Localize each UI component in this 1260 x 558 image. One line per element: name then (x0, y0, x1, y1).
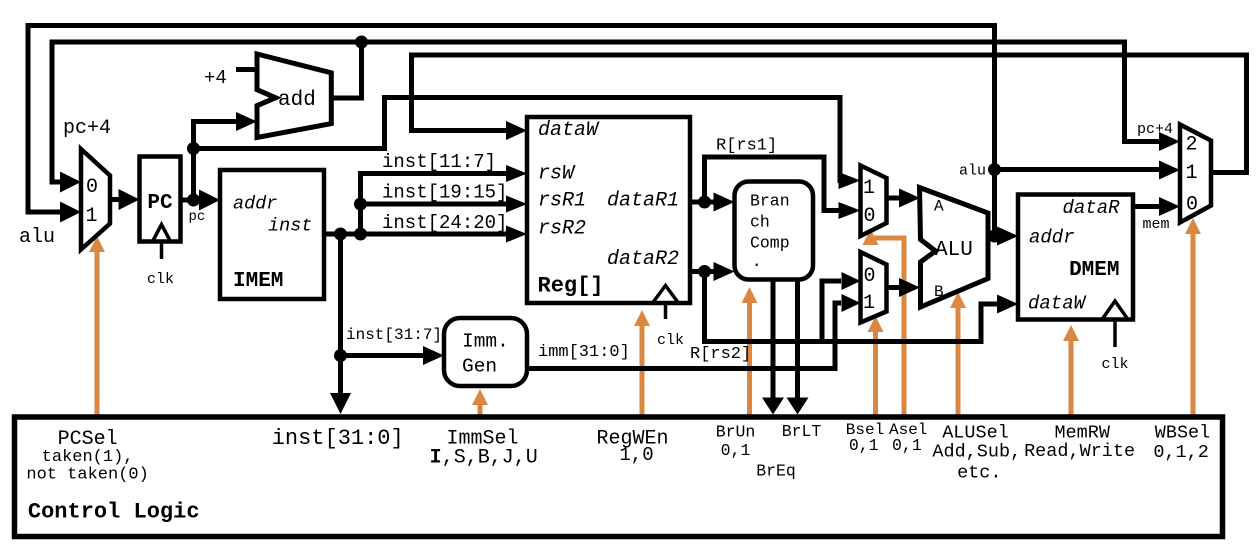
wire alu feedback loop (ALU output to PCSel mux input 1) (28, 26, 995, 237)
arrowhead into A-mux input 1 (839, 172, 861, 189)
wire A-mux output to ALU A (887, 196, 901, 201)
wire BrEq (Branch Comp to Control Logic) (771, 280, 776, 399)
wire inst[24:20] (IMEM inst output to Reg rsR2) (324, 232, 507, 237)
wire PCSel mux output to PC (110, 197, 119, 202)
svg-text:1: 1 (85, 205, 97, 228)
svg-text:0,1: 0,1 (849, 436, 879, 455)
svg-text:B: B (934, 283, 944, 301)
svg-text:alu: alu (19, 226, 55, 249)
WBSel control arrow (orange) (1185, 218, 1201, 419)
arrowhead into PCSel mux input 1 (60, 202, 81, 223)
arrowhead into B-mux input 0 (842, 272, 861, 290)
node pc output junction (187, 194, 200, 207)
mux WBSel (1180, 125, 1211, 223)
arrowhead inst[31:0] into Control Logic (330, 393, 351, 414)
svg-text:Add,Sub,: Add,Sub, (932, 442, 1021, 463)
arrowhead into PC (119, 189, 140, 210)
svg-text:DMEM: DMEM (1069, 259, 1119, 282)
svg-text:IMEM: IMEM (233, 270, 283, 293)
svg-text:ALUSel: ALUSel (942, 423, 1009, 444)
svg-text:Imm.: Imm. (462, 331, 509, 353)
svg-text:add: add (278, 89, 316, 112)
wire R[rs1] to A-mux input 0 (705, 157, 842, 211)
arrowhead BrEq into Control Logic (762, 398, 784, 415)
mux Bsel (861, 252, 887, 323)
RegWEn control arrow (orange) (634, 310, 650, 419)
arrowhead into Reg rsR1 (506, 196, 527, 213)
svg-text:dataW: dataW (1028, 293, 1087, 315)
arrowhead into ALU A input (899, 189, 920, 208)
wire DMEM clk stub (1113, 320, 1117, 348)
svg-text:0,1,2: 0,1,2 (1153, 442, 1209, 463)
wire inst[31:0] down to Control Logic (338, 234, 343, 395)
svg-text:rsR1: rsR1 (538, 190, 586, 213)
svg-text:0,1: 0,1 (892, 436, 922, 455)
svg-text:addr: addr (233, 194, 277, 215)
svg-text:imm[31:0]: imm[31:0] (538, 343, 630, 362)
svg-text:rsR2: rsR2 (538, 218, 586, 241)
arrowhead into Reg dataW (506, 121, 527, 140)
node inst output junction (334, 228, 347, 241)
svg-text:Control Logic: Control Logic (28, 500, 200, 525)
Bsel control arrow (orange) (868, 316, 884, 419)
svg-text:1: 1 (863, 177, 875, 200)
Reg clk triangle (653, 286, 679, 304)
wire inst[31:7] to Imm. Gen (341, 353, 425, 358)
wire inst[19:15] branch to Reg rsR1 (361, 202, 508, 207)
svg-text:clk: clk (147, 271, 174, 288)
wire DMEM dataR to WB mux input 0 (1133, 204, 1160, 209)
mux PCSel (81, 149, 110, 250)
svg-text:0: 0 (863, 205, 875, 228)
arrowhead into Imm. Gen (423, 346, 444, 365)
svg-text:ALU: ALU (935, 239, 973, 262)
svg-text:dataW: dataW (538, 119, 600, 142)
wire PC clk stub (160, 242, 164, 260)
wire pc+4 loop (add output to PCSel mux input 0 and WB mux input 2) (331, 42, 361, 98)
arrowhead into Reg rsW (506, 165, 527, 182)
arrowhead into A-mux input 0 (839, 202, 861, 219)
svg-text:R[rs1]: R[rs1] (716, 137, 777, 156)
svg-text:BrEq: BrEq (756, 462, 796, 481)
svg-text:1: 1 (863, 292, 875, 315)
svg-text:dataR1: dataR1 (607, 190, 679, 213)
svg-text:mem: mem (1143, 216, 1170, 233)
svg-text:dataR2: dataR2 (607, 248, 679, 271)
register file Reg[] (527, 117, 690, 303)
register PC (140, 157, 181, 242)
svg-text:BrLT: BrLT (782, 422, 822, 441)
node dataR1 junction (698, 196, 711, 209)
arrowhead into DMEM dataW (997, 295, 1018, 314)
svg-text:Read,Write: Read,Write (1024, 441, 1135, 462)
svg-text:alu: alu (959, 163, 986, 180)
svg-text:WBSel: WBSel (1155, 423, 1211, 444)
svg-text:dataR: dataR (1062, 197, 1120, 219)
wire dataR1 to Branch Comp (690, 200, 715, 205)
control unit Control Logic box (15, 417, 1223, 537)
wire writeback (WB mux output to Reg dataW) (412, 55, 1247, 173)
svg-text:+4: +4 (204, 67, 227, 89)
node ALU output junction (988, 230, 1001, 243)
svg-text:.: . (752, 252, 762, 271)
ALUSel control arrow (orange) (950, 292, 966, 419)
svg-text:Gen: Gen (462, 356, 497, 378)
arrowhead into Branch Comp lower input (714, 262, 735, 281)
svg-text:2: 2 (1185, 134, 1197, 157)
svg-text:pc+4: pc+4 (63, 117, 111, 140)
wire inst[11:7] riser and branch to Reg rsW (361, 174, 508, 235)
wire pc net (PC output to IMEM addr, +4 adder, A-mux input 1) (181, 198, 201, 203)
node add output junction (355, 36, 368, 49)
arrowhead BrLT into Control Logic (787, 398, 809, 415)
svg-text:Reg[]: Reg[] (538, 274, 604, 299)
arrowhead into PCSel mux input 0 (60, 172, 81, 193)
svg-text:A: A (934, 198, 944, 216)
node dataR2 junction (698, 265, 711, 278)
svg-text:clk: clk (1101, 356, 1128, 373)
svg-text:I,S,B,J,U: I,S,B,J,U (430, 447, 538, 470)
arrowhead into DMEM addr (997, 227, 1018, 246)
svg-text:inst[19:15]: inst[19:15] (382, 182, 507, 204)
arrowhead into WB mux input 1 (1159, 161, 1180, 180)
ImmSel control arrow (orange) (472, 389, 488, 419)
BrUn control arrow (orange) (742, 287, 758, 419)
svg-text:etc.: etc. (957, 463, 1001, 484)
svg-text:inst[24:20]: inst[24:20] (382, 212, 507, 234)
wire B-mux output to ALU B (887, 285, 901, 290)
DMEM clk triangle (1102, 301, 1128, 320)
arrowhead into Reg rsR2 (506, 226, 527, 243)
svg-text:BrUn: BrUn (716, 423, 756, 442)
unit Branch Comp (735, 182, 814, 280)
svg-text:inst[11:7]: inst[11:7] (382, 151, 496, 173)
PCSel control arrow (orange) (89, 236, 105, 419)
svg-text:Comp: Comp (750, 234, 790, 253)
svg-text:inst: inst (268, 216, 312, 237)
mux Asel (861, 166, 887, 237)
arrowhead into IMEM addr (199, 190, 220, 211)
svg-text:taken(1),: taken(1), (42, 448, 134, 467)
wire +4 constant stub (236, 67, 260, 72)
arrowhead into add lower input (236, 112, 257, 131)
adder add (257, 54, 331, 138)
svg-text:inst[31:7]: inst[31:7] (346, 326, 442, 344)
arrowhead into WB mux input 2 (1159, 132, 1180, 151)
arrowhead into WB mux input 0 (1159, 197, 1180, 216)
unit Imm. Gen (444, 318, 527, 386)
arrowhead into B-mux input 1 (842, 294, 861, 312)
wire ALU output to DMEM addr (988, 234, 998, 239)
Asel control arrow (orange) (863, 229, 905, 419)
svg-text:R[rs2]: R[rs2] (690, 345, 751, 364)
alu ALU (920, 188, 989, 308)
node inst[31:7] junction (334, 349, 347, 362)
svg-text:0: 0 (1186, 194, 1198, 217)
svg-text:pc: pc (189, 209, 206, 225)
arrowhead into ALU B input (899, 278, 920, 297)
memory DMEM (1018, 195, 1133, 320)
wire dataR2 to Branch Comp (690, 269, 715, 274)
wire Reg clk stub (664, 303, 668, 319)
svg-text:Bran: Bran (750, 191, 790, 210)
svg-text:pc+4: pc+4 (1137, 121, 1173, 138)
PC clk triangle (153, 225, 171, 242)
svg-text:1,0: 1,0 (619, 444, 653, 466)
svg-text:0: 0 (863, 265, 875, 288)
node inst[19:15] junction (354, 198, 367, 211)
node alu junction upper (988, 163, 1001, 176)
MemRW control arrow (orange) (1063, 325, 1079, 419)
svg-text:addr: addr (1029, 227, 1075, 249)
arrowhead into Branch Comp upper input (714, 193, 735, 212)
wire R[rs2] to DMEM dataW (705, 272, 999, 342)
svg-text:0,1: 0,1 (721, 441, 751, 460)
svg-text:PC: PC (147, 192, 173, 215)
svg-text:1: 1 (1185, 162, 1197, 185)
node inst riser junction (354, 228, 367, 241)
svg-text:inst[31:0]: inst[31:0] (272, 426, 404, 451)
wire BrLT (Branch Comp to Control Logic) (795, 280, 800, 399)
wire R[rs2] branch to B-mux input 0 (822, 281, 841, 342)
wire alu branch to WB mux input 1 (995, 167, 1161, 172)
svg-text:rsW: rsW (538, 163, 576, 186)
svg-text:clk: clk (657, 332, 684, 349)
svg-text:not taken(0): not taken(0) (26, 466, 148, 485)
node pc branch junction (187, 142, 200, 155)
wire imm[31:0] (Imm. Gen output to B-mux input 1) (527, 303, 841, 369)
svg-text:0: 0 (86, 176, 98, 199)
svg-text:ch: ch (750, 213, 770, 232)
memory IMEM (220, 170, 324, 299)
